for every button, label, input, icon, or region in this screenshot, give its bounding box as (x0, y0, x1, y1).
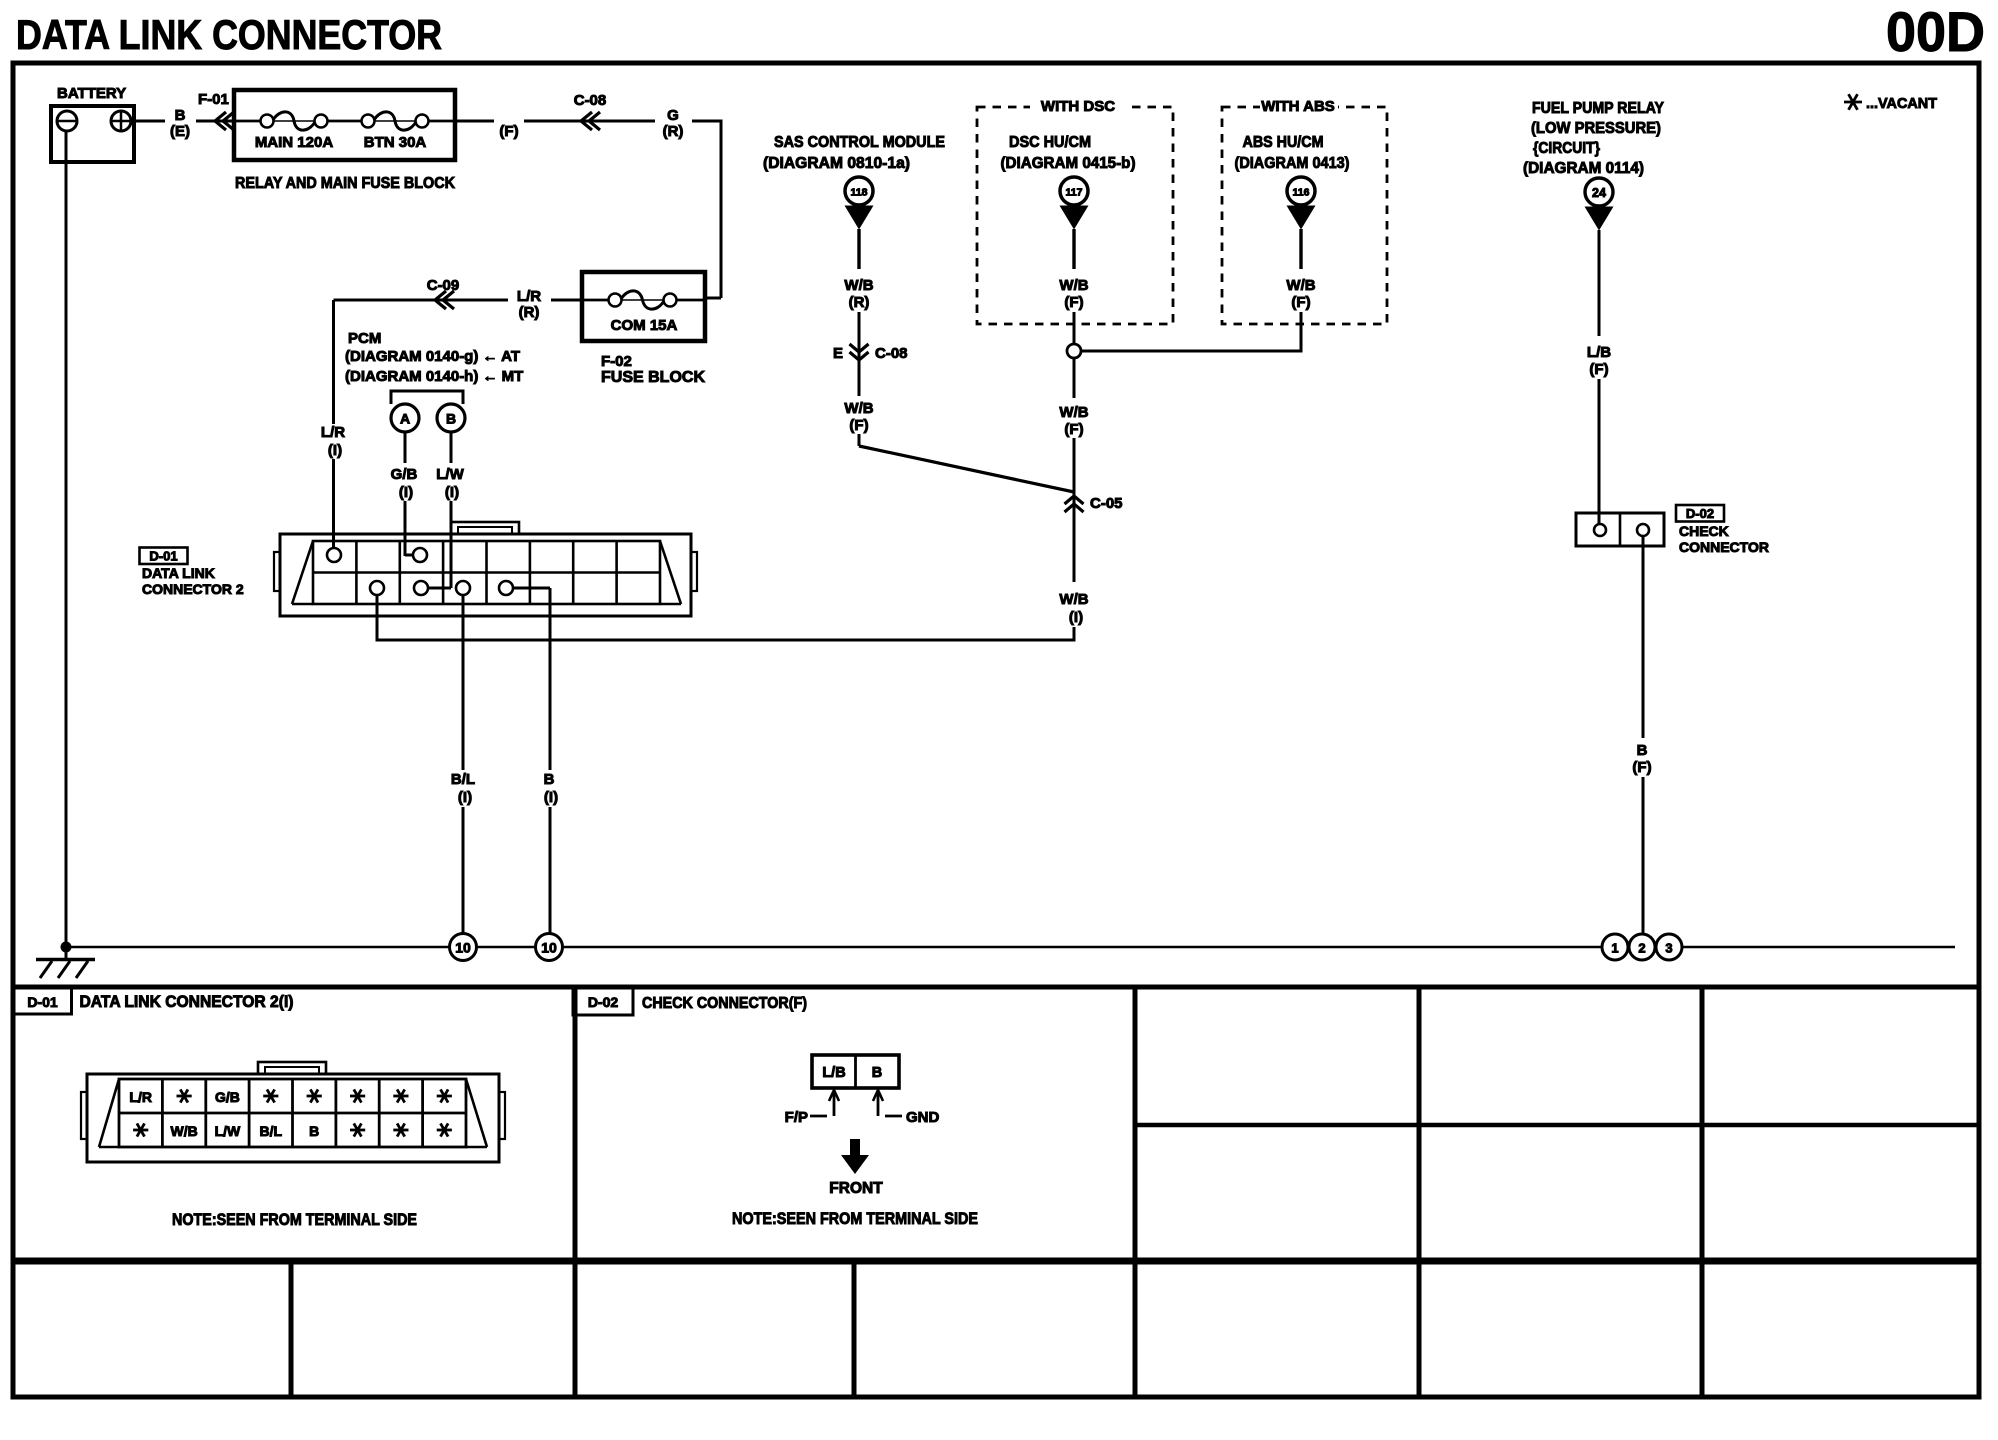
svg-text:118: 118 (851, 187, 868, 199)
main diagram border frame (13, 63, 1979, 987)
D-01 terminal view outer shell (87, 1074, 499, 1162)
check connector pin L/B (1594, 524, 1606, 536)
svg-text:W/B: W/B (844, 400, 873, 417)
svg-text:B: B (446, 411, 456, 427)
svg-text:NOTE:SEEN FROM TERMINAL SIDE: NOTE:SEEN FROM TERMINAL SIDE (172, 1210, 417, 1229)
WITH ABS dashed box (1222, 107, 1387, 324)
svg-text:(DIAGRAM 0810-1a): (DIAGRAM 0810-1a) (763, 155, 910, 172)
D-01 pin cell row1 col8 (437, 1095, 452, 1098)
junction circle DSC/ABS (1067, 344, 1081, 358)
svg-text:(R): (R) (519, 304, 540, 321)
wire battery positive to fuse block (131, 120, 165, 123)
svg-text:C-08: C-08 (875, 345, 908, 362)
fuel pump relay pin circle 24 (1585, 178, 1613, 206)
wire junction to ABS (1081, 350, 1301, 353)
FRONT arrow (850, 1139, 860, 1156)
svg-text:BTN 30A: BTN 30A (364, 134, 427, 151)
DLC2 pin grid (313, 541, 660, 604)
D-01 pin cell row1 col2 (177, 1095, 192, 1098)
D-01 terminal view left side tab (81, 1092, 87, 1139)
wire DSC down (1072, 229, 1075, 269)
wire SAS down (857, 229, 860, 269)
table divider vertical x1702 (1700, 987, 1705, 1397)
check connector D-02 box (1576, 513, 1664, 546)
wire to right edge of fuse block (428, 120, 455, 123)
wire L/R down to DLC2 pin (332, 300, 335, 424)
data link connector 2 outer shell (280, 534, 691, 616)
PCM pin A (391, 404, 419, 432)
svg-text:(F): (F) (849, 417, 868, 434)
D-01 terminal grid (119, 1079, 466, 1147)
svg-text:(R): (R) (849, 294, 870, 311)
svg-text:F-02: F-02 (601, 353, 632, 370)
ground bus wire segment (477, 946, 536, 949)
svg-text:L/W: L/W (215, 1123, 241, 1139)
check connector pin B (1637, 524, 1649, 536)
DLC2 right side tab (691, 552, 697, 591)
DLC2 left side tab (274, 552, 280, 591)
SAS pin circle 118 (845, 177, 873, 205)
svg-text:L/R: L/R (321, 424, 345, 441)
battery negative terminal (57, 111, 77, 131)
wire junction down (1073, 358, 1076, 398)
table divider vertical x1135 (1133, 987, 1138, 1397)
PCM pin B (437, 404, 465, 432)
svg-text:3: 3 (1665, 941, 1672, 956)
wire W/B from DLC2 to C-05 branch (377, 595, 1074, 640)
svg-text:DATA LINK CONNECTOR: DATA LINK CONNECTOR (16, 11, 442, 58)
wire into relay block (196, 120, 234, 123)
wire G down to fuse block F-02 (692, 120, 721, 123)
DSC pin circle 117 (1060, 177, 1088, 205)
wire B/L down (462, 595, 465, 770)
connector C-05 chevron (1065, 496, 1084, 504)
svg-text:F-01: F-01 (198, 91, 229, 108)
svg-text:...VACANT: ...VACANT (1866, 95, 1937, 112)
svg-text:WITH ABS: WITH ABS (1261, 98, 1335, 115)
svg-text:(R): (R) (663, 123, 684, 140)
wire C-09 horizontal (334, 299, 509, 302)
wire fuse block to (F) (455, 120, 494, 123)
fuse BTN 30A (362, 115, 375, 128)
table divider vertical x575 (573, 987, 578, 1397)
DLC2 pin row2 col4 (B/L) (456, 581, 470, 595)
svg-text:L/R: L/R (129, 1089, 152, 1105)
D-02 terminal cells (812, 1055, 899, 1088)
ABS arrow (1287, 206, 1316, 230)
svg-text:(I): (I) (458, 789, 472, 806)
DLC2 pin row2 col2 (W/B) (370, 581, 384, 595)
ground terminal circle 3 (1656, 934, 1682, 960)
svg-text:(F): (F) (1291, 294, 1310, 311)
svg-text:1: 1 (1611, 941, 1618, 956)
svg-text:L/B: L/B (822, 1065, 845, 1081)
svg-text:A: A (400, 411, 410, 427)
GND arrow (877, 1091, 880, 1116)
table label box D-02 (573, 988, 633, 1015)
svg-text:FRONT: FRONT (829, 1180, 883, 1197)
svg-text:(I): (I) (544, 789, 558, 806)
wire B from pin to down run (513, 587, 550, 590)
svg-text:NOTE:SEEN FROM TERMINAL SIDE: NOTE:SEEN FROM TERMINAL SIDE (732, 1209, 978, 1228)
D-01 terminal view right slant (466, 1079, 487, 1147)
svg-text:BATTERY: BATTERY (57, 85, 126, 102)
DLC2 right slant (660, 541, 681, 604)
table divider vertical x1419 (1417, 987, 1422, 1397)
ground terminal circle 10 (B) (536, 934, 563, 961)
D-01 pin cell row1 col6 (350, 1095, 365, 1098)
svg-text:117: 117 (1066, 187, 1083, 199)
svg-text:G/B: G/B (215, 1089, 240, 1105)
connector E C-08 chevron (850, 352, 869, 360)
vacant legend (1844, 101, 1862, 104)
D-01 pin cell row1 col5 (307, 1095, 322, 1098)
svg-text:D-01: D-01 (149, 549, 177, 564)
wire inside fuse block (234, 120, 261, 123)
ground bus wire (66, 946, 450, 949)
svg-text:D-02: D-02 (588, 994, 619, 1010)
svg-text:CONNECTOR 2: CONNECTOR 2 (142, 581, 244, 597)
svg-text:MAIN 120A: MAIN 120A (255, 134, 334, 151)
ground bus wire right tail (1682, 946, 1955, 949)
wire inside F-02 (582, 299, 609, 302)
fuse block F-02 box (582, 272, 705, 341)
table label box D-01 (14, 988, 72, 1014)
svg-text:B: B (544, 771, 555, 788)
svg-text:W/B: W/B (1059, 591, 1088, 608)
svg-text:(I): (I) (399, 484, 413, 501)
svg-text:FUSE BLOCK: FUSE BLOCK (601, 369, 705, 386)
svg-text:(I): (I) (1069, 609, 1083, 626)
table divider horizontal y1261 (13, 1258, 1979, 1265)
wire check connector B down (1642, 536, 1645, 738)
svg-text:B: B (309, 1123, 319, 1139)
ground terminal circle 1 (1602, 934, 1628, 960)
D-01 terminal view left slant (99, 1079, 119, 1147)
ground terminal circle 2 (1629, 934, 1655, 960)
svg-text:COM 15A: COM 15A (611, 317, 678, 334)
svg-text:(DIAGRAM 0140-h) ← MT: (DIAGRAM 0140-h) ← MT (345, 368, 523, 385)
svg-text:WITH DSC: WITH DSC (1041, 98, 1115, 115)
svg-text:(I): (I) (328, 442, 342, 459)
DSC arrow (1060, 206, 1089, 230)
D-01 pin cell row2 col8 (437, 1129, 452, 1132)
wire F-02 to L/R label (551, 299, 582, 302)
fuel pump relay arrow (1585, 207, 1614, 231)
svg-text:C-08: C-08 (574, 92, 607, 109)
D-01 pin cell row2 col1 (133, 1129, 148, 1132)
svg-text:{CIRCUIT}: {CIRCUIT} (1533, 140, 1600, 157)
svg-text:116: 116 (1293, 187, 1310, 199)
junction dot at ground bus (61, 942, 72, 953)
wire pin B down (450, 432, 453, 463)
svg-text:(DIAGRAM 0415-b): (DIAGRAM 0415-b) (1001, 155, 1136, 172)
connector D-01 label box (140, 548, 188, 565)
connector D-02 label box (1676, 505, 1724, 522)
WITH DSC dashed box (977, 107, 1173, 324)
PCM bracket (391, 391, 463, 404)
svg-text:RELAY AND MAIN FUSE BLOCK: RELAY AND MAIN FUSE BLOCK (235, 175, 455, 192)
svg-text:GND: GND (906, 1109, 940, 1126)
DLC2 top tab (451, 522, 519, 534)
svg-text:CHECK CONNECTOR(F): CHECK CONNECTOR(F) (642, 995, 807, 1012)
svg-text:(F): (F) (1064, 421, 1083, 438)
svg-text:W/B: W/B (1286, 277, 1315, 294)
wire fuel pump relay down (1598, 230, 1601, 336)
D-01 terminal view right side tab (499, 1092, 505, 1139)
connector F-01 chevron (215, 112, 226, 130)
DLC2 left slant (292, 541, 313, 604)
wire SAS diagonal to C-05 (858, 434, 861, 446)
svg-text:G: G (667, 107, 679, 124)
svg-text:24: 24 (1592, 186, 1606, 200)
battery positive terminal (111, 111, 131, 131)
table divider horizontal y1125 right side (1135, 1123, 1979, 1128)
battery BATTERY (51, 106, 134, 162)
svg-text:(F): (F) (1632, 759, 1651, 776)
ground terminal circle 10 (B/L) (450, 934, 477, 961)
D-01 pin cell row1 col7 (393, 1095, 408, 1098)
svg-text:W/B: W/B (844, 277, 873, 294)
svg-text:ABS HU/CM: ABS HU/CM (1243, 134, 1324, 151)
DLC2 pin row1 col1 (L/R) (327, 548, 341, 562)
svg-text:F/P: F/P (785, 1109, 808, 1126)
svg-text:(F): (F) (1589, 361, 1608, 378)
svg-text:B: B (1637, 742, 1648, 759)
svg-text:G/B: G/B (391, 466, 418, 483)
wire ABS down (1299, 229, 1302, 269)
svg-text:(F): (F) (499, 123, 518, 140)
DLC2 pin row2 col5 (B) (499, 581, 513, 595)
svg-text:PCM: PCM (348, 330, 381, 347)
wire battery negative down to ground bus (65, 131, 68, 947)
svg-text:00D: 00D (1886, 0, 1985, 63)
svg-text:(DIAGRAM 0114): (DIAGRAM 0114) (1523, 160, 1644, 177)
D-01 pin cell row2 col7 (393, 1129, 408, 1132)
SAS arrow (845, 206, 874, 230)
svg-text:(LOW PRESSURE): (LOW PRESSURE) (1531, 120, 1661, 137)
svg-text:10: 10 (541, 940, 557, 956)
D-01 pin cell row1 col4 (263, 1095, 278, 1098)
connector C-09 chevron (435, 291, 446, 309)
terminal table frame (13, 987, 1979, 1397)
svg-text:B/L: B/L (260, 1123, 283, 1139)
wire between fuses (327, 120, 362, 123)
D-01 terminal view top tab (258, 1062, 326, 1074)
DLC2 pin row1 col3 (G/B) (413, 548, 427, 562)
svg-text:D-02: D-02 (1686, 506, 1714, 521)
svg-text:B/L: B/L (451, 771, 475, 788)
D-01 pin cell row2 col6 (350, 1129, 365, 1132)
svg-text:FUEL PUMP RELAY: FUEL PUMP RELAY (1532, 100, 1664, 117)
svg-text:B: B (175, 107, 186, 124)
svg-text:DATA LINK CONNECTOR 2(I): DATA LINK CONNECTOR 2(I) (80, 993, 294, 1011)
svg-text:(F): (F) (1064, 294, 1083, 311)
svg-text:L/B: L/B (1587, 344, 1611, 361)
svg-text:(DIAGRAM 0413): (DIAGRAM 0413) (1235, 155, 1350, 172)
svg-text:DSC HU/CM: DSC HU/CM (1009, 134, 1091, 151)
svg-text:(E): (E) (170, 123, 190, 140)
F/P arrow (833, 1091, 836, 1116)
svg-text:(I): (I) (445, 484, 459, 501)
relay and main fuse block box (234, 90, 455, 160)
svg-text:2: 2 (1638, 941, 1645, 956)
connector C-08 chevron (581, 112, 592, 130)
svg-text:B: B (872, 1065, 882, 1081)
svg-text:W/B: W/B (1059, 277, 1088, 294)
svg-text:(DIAGRAM 0140-g) ← AT: (DIAGRAM 0140-g) ← AT (345, 348, 520, 365)
svg-text:DATA LINK: DATA LINK (142, 565, 215, 581)
svg-text:L/R: L/R (517, 288, 541, 305)
svg-text:W/B: W/B (1059, 404, 1088, 421)
ground symbol (65, 947, 68, 960)
DLC2 pin row2 col3 (L/W) (414, 581, 428, 595)
svg-text:C-05: C-05 (1090, 495, 1123, 512)
svg-text:W/B: W/B (170, 1123, 197, 1139)
svg-text:E: E (833, 345, 843, 362)
svg-text:SAS CONTROL MODULE: SAS CONTROL MODULE (774, 134, 945, 151)
fuse MAIN 120A (261, 115, 274, 128)
svg-text:D-01: D-01 (27, 994, 58, 1010)
ABS pin circle 116 (1287, 177, 1315, 205)
svg-text:CHECK: CHECK (1679, 523, 1729, 539)
svg-text:CONNECTOR: CONNECTOR (1679, 539, 1769, 555)
svg-text:L/W: L/W (436, 466, 464, 483)
ground bus wire segment (563, 946, 1603, 949)
fuse COM 15A (609, 294, 622, 307)
svg-text:10: 10 (455, 940, 471, 956)
table divider vertical x291 bottom row (289, 1261, 294, 1397)
wire pin A down (404, 432, 407, 463)
wire (F) to G (524, 120, 655, 123)
table divider vertical x854 bottom row (852, 1261, 857, 1397)
